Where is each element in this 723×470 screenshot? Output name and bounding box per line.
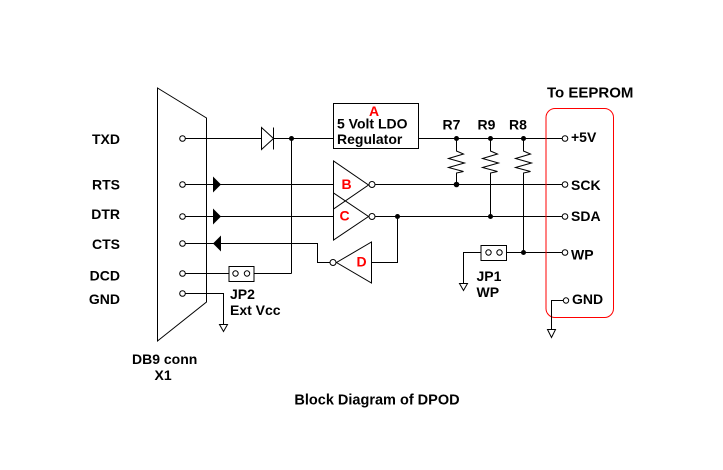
junction R9 bottom on SDA	[488, 214, 493, 219]
junction R8 top	[521, 136, 526, 141]
svg-text:RTS: RTS	[92, 177, 120, 193]
svg-text:R9: R9	[478, 117, 496, 133]
svg-text:C: C	[339, 208, 349, 224]
jumper JP2	[229, 267, 254, 282]
svg-text:X1: X1	[155, 367, 172, 383]
buffer C	[334, 193, 376, 240]
ground symbol left	[220, 325, 228, 332]
ground symbol EEPROM	[548, 330, 556, 338]
pin SCK	[562, 182, 568, 188]
wire JP1 to ground	[464, 253, 482, 284]
pin +5V	[562, 136, 568, 142]
svg-text:D: D	[356, 254, 366, 270]
svg-text:DTR: DTR	[91, 206, 120, 222]
svg-text:GND: GND	[572, 291, 603, 307]
pin RTS	[180, 182, 186, 188]
wire GND left	[186, 294, 224, 325]
svg-text:WP: WP	[571, 247, 594, 263]
connector X1 DB9 outline	[158, 88, 207, 341]
svg-text:Block Diagram of DPOD: Block Diagram of DPOD	[294, 393, 459, 409]
svg-text:+5V: +5V	[571, 129, 597, 145]
jumper JP1	[481, 246, 507, 261]
resistor R9	[483, 139, 499, 217]
svg-text:R7: R7	[443, 117, 461, 133]
svg-text:To EEPROM: To EEPROM	[547, 85, 633, 102]
arrow DTR	[213, 209, 221, 225]
svg-text:Ext Vcc: Ext Vcc	[230, 302, 281, 318]
svg-text:SDA: SDA	[571, 208, 601, 224]
pin DTR	[180, 214, 186, 220]
wire SCK from B	[376, 184, 563, 186]
regulator U-A box	[334, 104, 419, 149]
EEPROM connector box	[546, 109, 614, 318]
wire JP2 to Ext Vcc node	[254, 273, 292, 275]
junction R8 bottom on WP	[521, 250, 526, 255]
diode D1	[262, 128, 274, 150]
wire GND right to ground	[552, 301, 564, 330]
wire CTS to buffer D	[186, 244, 331, 263]
svg-text:TXD: TXD	[92, 131, 120, 147]
wire RTS to buffer B	[186, 184, 334, 186]
wire DCD to JP2	[186, 273, 230, 275]
junction R7 top	[454, 136, 459, 141]
ground symbol JP1	[460, 284, 468, 291]
svg-text:DCD: DCD	[90, 268, 120, 284]
wire Ext Vcc vertical	[291, 139, 293, 274]
pin GND	[180, 291, 186, 297]
junction D-SDA	[395, 214, 400, 219]
junction Vcc node	[289, 136, 294, 141]
buffer B	[334, 161, 376, 209]
wire regulator output +5V rail	[419, 138, 563, 140]
resistor R8	[516, 139, 532, 253]
pin SDA	[562, 214, 568, 220]
pin WP	[562, 250, 568, 256]
arrow RTS	[213, 177, 221, 193]
svg-text:B: B	[341, 176, 351, 192]
wire TXD to diode	[186, 138, 262, 140]
svg-text:DB9 conn: DB9 conn	[132, 351, 197, 367]
svg-text:GND: GND	[89, 291, 120, 307]
svg-text:Regulator: Regulator	[337, 131, 403, 147]
svg-text:WP: WP	[477, 284, 500, 300]
svg-text:CTS: CTS	[92, 236, 120, 252]
junction R7 bottom on SCK	[454, 182, 460, 188]
wire diode to regulator	[274, 138, 334, 140]
wire SDA from C	[376, 216, 563, 218]
junction R9 top	[488, 136, 493, 141]
svg-text:5 Volt LDO: 5 Volt LDO	[337, 116, 408, 132]
pin CTS	[180, 241, 186, 247]
svg-text:JP1: JP1	[477, 268, 502, 284]
svg-text:SCK: SCK	[571, 177, 601, 193]
pin GND right	[563, 298, 568, 303]
wire JP1 to WP pin	[507, 252, 563, 254]
pin DCD	[180, 271, 186, 277]
buffer D	[330, 242, 372, 283]
pin TXD	[180, 136, 186, 142]
wire D output to SDA	[372, 217, 398, 263]
resistor R7	[449, 139, 465, 185]
svg-text:R8: R8	[509, 117, 527, 133]
wire DTR to buffer C	[186, 216, 334, 218]
svg-text:JP2: JP2	[230, 286, 255, 302]
arrow CTS	[213, 236, 221, 252]
